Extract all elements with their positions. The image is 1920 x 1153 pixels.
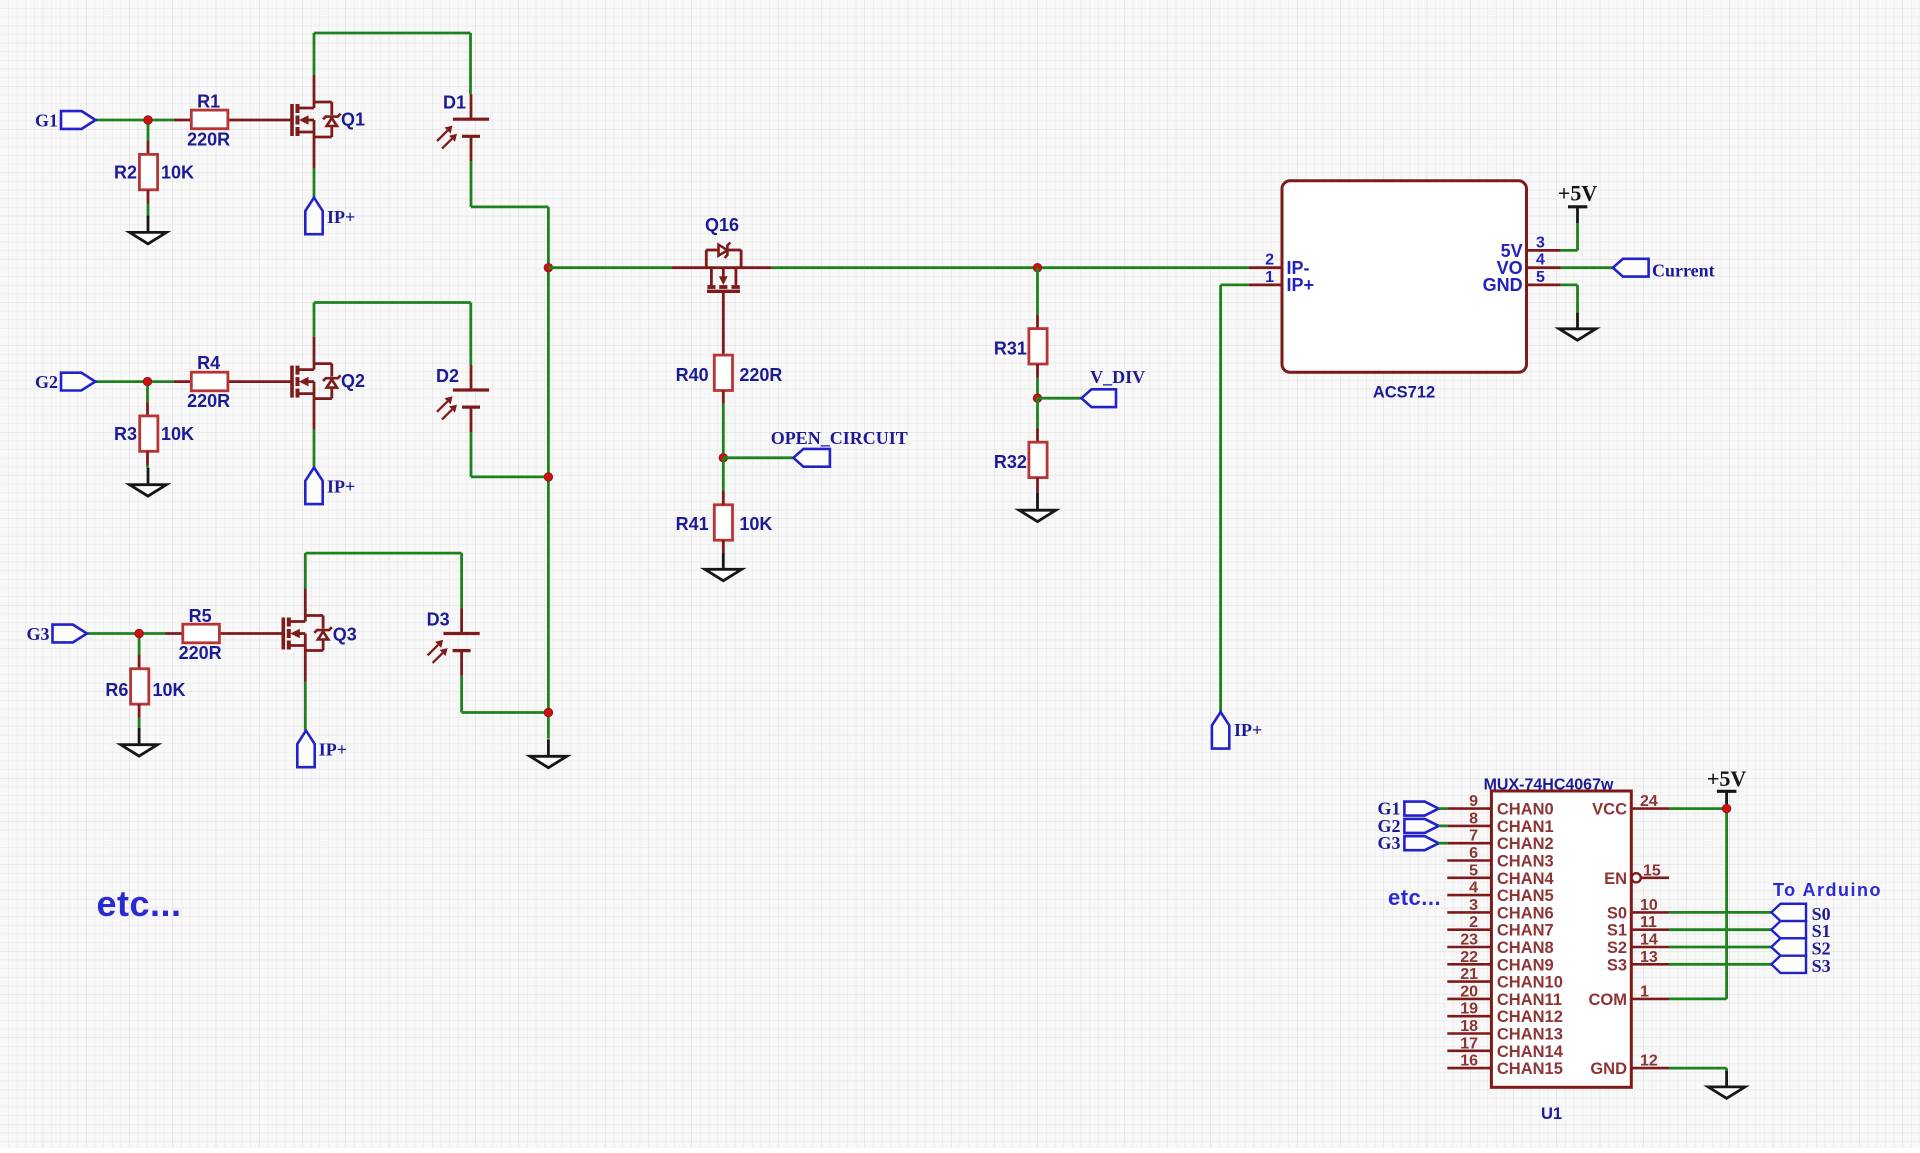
svg-text:OPEN_CIRCUIT: OPEN_CIRCUIT	[771, 428, 908, 448]
svg-text:+5V: +5V	[1707, 766, 1747, 791]
svg-text:G3: G3	[26, 624, 49, 644]
svg-text:12: 12	[1640, 1053, 1658, 1070]
svg-text:MUX-74HC4067w: MUX-74HC4067w	[1484, 777, 1614, 794]
svg-text:21: 21	[1460, 966, 1478, 983]
svg-text:1: 1	[1265, 269, 1274, 286]
svg-text:1: 1	[1640, 983, 1649, 1000]
svg-text:4: 4	[1536, 252, 1545, 269]
svg-text:10K: 10K	[153, 680, 186, 700]
svg-text:14: 14	[1640, 932, 1658, 949]
svg-text:D1: D1	[443, 93, 466, 113]
svg-text:220R: 220R	[739, 365, 782, 385]
svg-text:GND: GND	[1483, 275, 1523, 295]
svg-text:G1: G1	[35, 110, 58, 130]
svg-text:CHAN5: CHAN5	[1497, 887, 1554, 905]
svg-text:+5V: +5V	[1558, 181, 1598, 206]
svg-text:CHAN12: CHAN12	[1497, 1008, 1563, 1026]
svg-text:S2: S2	[1607, 939, 1627, 957]
svg-text:Q3: Q3	[333, 625, 357, 645]
svg-text:S0: S0	[1607, 904, 1627, 922]
svg-text:CHAN14: CHAN14	[1497, 1043, 1564, 1061]
svg-text:EN: EN	[1604, 870, 1627, 888]
svg-text:etc...: etc...	[97, 883, 182, 924]
svg-text:ACS712: ACS712	[1373, 384, 1435, 402]
svg-text:13: 13	[1640, 949, 1658, 966]
svg-text:CHAN7: CHAN7	[1497, 922, 1554, 940]
svg-text:10K: 10K	[161, 424, 194, 444]
svg-text:17: 17	[1460, 1035, 1478, 1052]
svg-text:V_DIV: V_DIV	[1090, 367, 1145, 387]
svg-text:CHAN9: CHAN9	[1497, 956, 1554, 974]
svg-text:IP+: IP+	[1234, 720, 1262, 740]
svg-text:G3: G3	[1377, 833, 1400, 853]
svg-text:G2: G2	[35, 372, 58, 392]
svg-text:220R: 220R	[187, 130, 230, 150]
svg-text:CHAN1: CHAN1	[1497, 818, 1554, 836]
svg-text:CHAN2: CHAN2	[1497, 835, 1554, 853]
svg-text:D3: D3	[427, 609, 450, 629]
svg-text:R5: R5	[189, 606, 212, 626]
svg-text:Q16: Q16	[705, 215, 739, 235]
svg-text:R2: R2	[114, 163, 137, 183]
svg-text:IP+: IP+	[327, 476, 355, 496]
svg-text:5: 5	[1536, 269, 1545, 286]
svg-text:22: 22	[1460, 949, 1478, 966]
svg-text:IP+: IP+	[1287, 275, 1315, 295]
svg-text:10: 10	[1640, 897, 1658, 914]
svg-text:19: 19	[1460, 1001, 1478, 1018]
svg-text:To Arduino: To Arduino	[1773, 880, 1882, 900]
svg-text:10K: 10K	[161, 163, 194, 183]
svg-text:U1: U1	[1541, 1105, 1562, 1123]
svg-text:11: 11	[1640, 914, 1657, 931]
svg-text:9: 9	[1469, 793, 1478, 810]
svg-text:IP+: IP+	[319, 740, 347, 760]
svg-text:R4: R4	[197, 353, 220, 373]
svg-text:R41: R41	[676, 514, 709, 534]
svg-text:CHAN3: CHAN3	[1497, 853, 1554, 871]
svg-text:Q2: Q2	[341, 371, 365, 391]
svg-text:CHAN8: CHAN8	[1497, 939, 1554, 957]
svg-text:IP+: IP+	[327, 207, 355, 227]
svg-text:18: 18	[1460, 1018, 1478, 1035]
svg-text:Current: Current	[1652, 261, 1715, 281]
svg-text:7: 7	[1469, 828, 1478, 845]
svg-text:R3: R3	[114, 424, 137, 444]
svg-text:10K: 10K	[739, 514, 772, 534]
svg-text:VCC: VCC	[1592, 801, 1627, 819]
svg-text:R40: R40	[676, 365, 709, 385]
svg-text:COM: COM	[1589, 991, 1628, 1009]
svg-text:4: 4	[1469, 880, 1478, 897]
svg-text:S3: S3	[1607, 956, 1627, 974]
svg-text:R6: R6	[105, 680, 128, 700]
svg-text:220R: 220R	[187, 391, 230, 411]
svg-text:R32: R32	[994, 452, 1027, 472]
svg-text:CHAN6: CHAN6	[1497, 904, 1554, 922]
svg-text:S3: S3	[1812, 956, 1831, 976]
svg-text:3: 3	[1469, 897, 1478, 914]
svg-text:16: 16	[1460, 1053, 1478, 1070]
svg-text:R1: R1	[197, 92, 220, 112]
svg-text:24: 24	[1640, 793, 1658, 810]
svg-text:23: 23	[1460, 932, 1478, 949]
svg-text:CHAN11: CHAN11	[1497, 991, 1562, 1009]
svg-text:D2: D2	[436, 366, 459, 386]
svg-text:220R: 220R	[179, 643, 222, 663]
svg-text:6: 6	[1469, 845, 1478, 862]
svg-text:5: 5	[1469, 862, 1478, 879]
svg-text:R31: R31	[994, 339, 1027, 359]
svg-text:CHAN4: CHAN4	[1497, 870, 1555, 888]
svg-text:etc...: etc...	[1388, 885, 1441, 910]
svg-text:20: 20	[1460, 983, 1478, 1000]
svg-text:CHAN10: CHAN10	[1497, 974, 1563, 992]
svg-text:8: 8	[1469, 810, 1478, 827]
svg-text:GND: GND	[1590, 1060, 1627, 1078]
svg-text:2: 2	[1469, 914, 1478, 931]
svg-text:15: 15	[1643, 862, 1661, 879]
svg-text:CHAN13: CHAN13	[1497, 1026, 1563, 1044]
svg-text:CHAN15: CHAN15	[1497, 1060, 1563, 1078]
svg-text:Q1: Q1	[341, 110, 365, 130]
svg-text:CHAN0: CHAN0	[1497, 801, 1554, 819]
svg-text:S1: S1	[1607, 922, 1627, 940]
svg-text:3: 3	[1536, 234, 1545, 251]
svg-text:2: 2	[1265, 252, 1274, 269]
